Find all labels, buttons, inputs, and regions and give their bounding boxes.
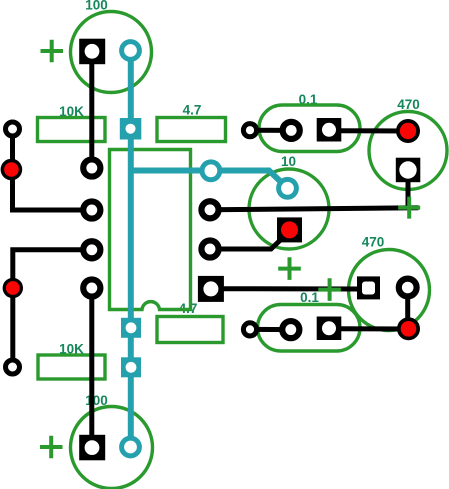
capacitor C2 outline (100uF, bottom-left circle) <box>71 407 153 489</box>
resistor R2 outline (4.7 top) <box>157 118 226 142</box>
via: teal square pad top <box>120 118 142 140</box>
pad: C2 positive teal ring <box>122 438 140 456</box>
polarity + for C2 <box>40 436 63 459</box>
pad: IC pin5 square pad <box>198 276 224 302</box>
via: red via upper-left <box>1 159 23 181</box>
svg-text:10: 10 <box>281 154 296 169</box>
pad: C5 positive ring <box>399 279 417 297</box>
wire: C6 left ring to via <box>250 327 291 332</box>
polarity + for C5 <box>318 278 341 301</box>
wire: C5 ring down to red pad <box>405 290 410 326</box>
capacitor C5 outline (470uF, bottom-right circle) <box>349 250 430 331</box>
pad: C3 ring <box>283 122 300 139</box>
wire: C6 square to C5 red pad <box>334 326 405 331</box>
pad: IC pin7 ring <box>201 201 218 218</box>
pad: C1 positive teal ring <box>122 42 140 60</box>
capacitor C3 outline (0.1, top stadium) <box>259 105 360 152</box>
pad: IC pin3 ring <box>83 241 100 258</box>
wire: C1 square pad down to IC pin1 <box>89 51 94 168</box>
svg-text:470: 470 <box>397 97 420 112</box>
teal trace: horizontal to pin8 ring and diagonal to Q1 base <box>131 171 288 189</box>
capacitor C4 outline (470uF, top-right circle) <box>369 112 447 190</box>
capacitor C6 outline (0.1, bottom stadium) <box>258 305 361 352</box>
pad: IC pin2 ring <box>83 201 100 218</box>
IC U1 outline (8-pin DIP with notch) <box>110 150 191 310</box>
pad: C5 red pad <box>397 317 420 340</box>
via: teal square pad bottom <box>121 357 141 377</box>
pad: IC pin4 ring <box>83 279 100 296</box>
wire: left via chain to IC pin2 <box>13 129 92 210</box>
pad: C2 negative square pad <box>79 435 105 461</box>
capacitor C1 outline (100uF, top-left circle) <box>71 12 152 93</box>
pad: C5 negative square pad (square hole) <box>357 276 380 299</box>
pad: C4 negative square pad <box>396 158 421 183</box>
wire: C3 left ring to via <box>250 128 291 133</box>
pad: C6 ring <box>282 321 299 338</box>
via: bottom-left small ring <box>6 360 20 374</box>
svg-text:470: 470 <box>362 235 385 250</box>
via: top-left small ring <box>6 122 20 136</box>
via: C6 left small ring <box>243 323 256 336</box>
resistor R3 outline (4.7 bottom) <box>157 317 223 343</box>
teal trace: vertical bottom-layer trace from C1 to C2 <box>128 51 134 448</box>
polarity + for Q1/C? left <box>278 257 301 280</box>
via: red via lower-left <box>3 278 23 298</box>
wire: IC pin4 down to C2 square pad <box>89 288 94 448</box>
pad: Q1 emitter square pad with red via <box>277 217 302 242</box>
resistor R4 outline (10K bottom) <box>38 355 105 379</box>
pad: IC pin6 ring <box>201 240 218 257</box>
polarity + for C4 <box>398 197 420 219</box>
pad: C1 negative square pad <box>79 39 105 64</box>
wire: IC pin6 to Q1 emitter square <box>210 239 282 250</box>
pad: C6 square pad <box>317 317 342 341</box>
via: teal square pad middle <box>121 318 141 338</box>
wire: left via chain to IC pin3 <box>13 250 92 367</box>
transistor Q1 outline (10, middle circle) <box>249 169 329 249</box>
pad: C3 square pad <box>317 118 342 142</box>
via: C3 left small ring <box>243 124 256 137</box>
polarity + for C1 <box>41 40 64 63</box>
pad: C4 red pad <box>396 119 420 143</box>
resistor R1 outline (10K top) <box>38 118 106 142</box>
pad: IC pin8 teal ring <box>202 162 220 180</box>
svg-text:0.1: 0.1 <box>300 290 319 305</box>
svg-text:4.7: 4.7 <box>183 103 202 118</box>
pad: IC pin1 ring <box>83 159 100 176</box>
wire: IC pin5 square to C5 square pad <box>214 286 362 291</box>
wire: IC pin7 across to + junction of C4 <box>210 208 419 210</box>
wire: C4 square pad down to junction <box>406 172 411 208</box>
pad: Q1 base teal ring <box>279 179 297 197</box>
wire: C3 square to C4 red pad <box>334 128 404 133</box>
